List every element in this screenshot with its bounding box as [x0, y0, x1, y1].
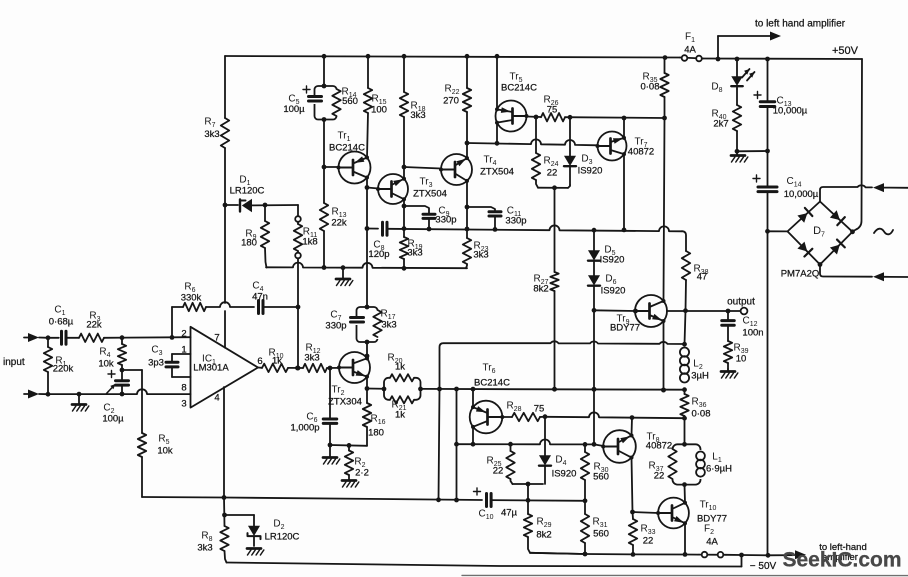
svg-text:8k2: 8k2	[536, 530, 551, 541]
svg-text:100µ: 100µ	[102, 414, 124, 425]
svg-text:7: 7	[214, 333, 219, 344]
svg-text:40872: 40872	[628, 147, 654, 158]
svg-text:0·08: 0·08	[691, 409, 710, 420]
svg-text:IS920: IS920	[552, 469, 577, 480]
svg-text:LR120C: LR120C	[265, 532, 300, 543]
svg-text:3k3: 3k3	[473, 250, 488, 261]
svg-text:3k3: 3k3	[381, 320, 396, 331]
svg-text:4A: 4A	[684, 45, 696, 56]
svg-text:3k3: 3k3	[204, 129, 219, 140]
svg-text:to left hand amplifier: to left hand amplifier	[755, 19, 846, 30]
svg-text:10,000µ: 10,000µ	[784, 189, 819, 200]
svg-text:120p: 120p	[368, 249, 389, 260]
svg-text:75: 75	[547, 105, 558, 116]
svg-text:100: 100	[371, 105, 387, 116]
svg-text:BC214C: BC214C	[329, 143, 365, 154]
svg-text:75: 75	[534, 404, 545, 415]
svg-text:22: 22	[654, 471, 665, 482]
svg-text:BDY77: BDY77	[697, 514, 727, 525]
svg-text:270: 270	[443, 96, 459, 107]
svg-text:ZTX504: ZTX504	[413, 189, 447, 200]
svg-text:1k: 1k	[272, 356, 282, 367]
svg-text:560: 560	[593, 529, 609, 540]
svg-text:BDY77: BDY77	[610, 323, 640, 334]
svg-text:SeekIC.com: SeekIC.com	[782, 549, 901, 572]
svg-text:2k7: 2k7	[713, 119, 728, 130]
svg-text:100µ: 100µ	[283, 104, 305, 115]
svg-text:3k3: 3k3	[304, 353, 319, 364]
svg-text:− 50V: − 50V	[750, 561, 777, 572]
svg-text:22: 22	[547, 168, 558, 179]
svg-text:47n: 47n	[252, 292, 268, 303]
svg-text:LR120C: LR120C	[230, 186, 265, 197]
svg-text:330p: 330p	[435, 215, 456, 226]
svg-text:IS920: IS920	[578, 166, 603, 177]
svg-text:10k: 10k	[157, 446, 173, 457]
svg-text:40872: 40872	[646, 441, 672, 452]
svg-text:3k3: 3k3	[410, 110, 425, 121]
svg-text:47: 47	[697, 272, 708, 283]
svg-text:0·68µ: 0·68µ	[49, 317, 74, 328]
svg-text:180: 180	[241, 238, 257, 249]
svg-text:IS920: IS920	[600, 255, 625, 266]
svg-text:IS920: IS920	[601, 286, 626, 297]
svg-text:6: 6	[257, 356, 262, 367]
svg-text:8k2: 8k2	[533, 284, 548, 295]
svg-text:ZTX504: ZTX504	[480, 167, 514, 178]
svg-text:input: input	[3, 357, 25, 368]
svg-text:ZTX304: ZTX304	[328, 397, 362, 408]
svg-text:3: 3	[181, 399, 186, 410]
svg-text:10k: 10k	[98, 359, 114, 370]
svg-text:22k: 22k	[86, 320, 102, 331]
svg-text:BC214C: BC214C	[474, 378, 510, 389]
svg-text:1,000p: 1,000p	[290, 423, 319, 434]
svg-text:2: 2	[181, 329, 186, 340]
svg-text:330k: 330k	[181, 293, 202, 304]
svg-text:47µ: 47µ	[501, 508, 518, 519]
svg-text:1: 1	[181, 345, 186, 356]
svg-text:1k8: 1k8	[302, 237, 317, 248]
svg-text:1k: 1k	[395, 410, 405, 421]
svg-text:+50V: +50V	[832, 45, 859, 57]
svg-text:220k: 220k	[53, 364, 74, 375]
svg-text:330p: 330p	[325, 321, 346, 332]
svg-text:22k: 22k	[331, 218, 347, 229]
svg-text:560: 560	[593, 472, 609, 483]
svg-text:PM7A2Q: PM7A2Q	[781, 269, 820, 280]
svg-text:10: 10	[736, 354, 747, 365]
svg-text:330p: 330p	[505, 216, 526, 227]
svg-text:LM301A: LM301A	[193, 363, 229, 374]
svg-text:180: 180	[368, 428, 384, 439]
svg-text:22: 22	[493, 466, 504, 477]
svg-text:10,000µ: 10,000µ	[773, 106, 808, 117]
svg-text:3k3: 3k3	[407, 248, 422, 259]
svg-text:4A: 4A	[706, 537, 718, 548]
svg-text:22: 22	[643, 536, 654, 547]
svg-text:560: 560	[342, 96, 358, 107]
svg-text:100n: 100n	[742, 328, 763, 339]
svg-text:3µH: 3µH	[691, 371, 709, 382]
svg-text:output: output	[727, 297, 755, 308]
svg-text:3p3: 3p3	[148, 358, 164, 369]
svg-text:8: 8	[181, 383, 186, 394]
svg-text:3k3: 3k3	[197, 543, 212, 554]
svg-text:4: 4	[214, 393, 219, 404]
svg-text:2·2: 2·2	[355, 468, 369, 479]
svg-text:BC214C: BC214C	[501, 83, 537, 94]
svg-text:0·08: 0·08	[640, 82, 659, 93]
svg-text:6·9µH: 6·9µH	[706, 464, 732, 475]
svg-text:1k: 1k	[395, 362, 405, 373]
